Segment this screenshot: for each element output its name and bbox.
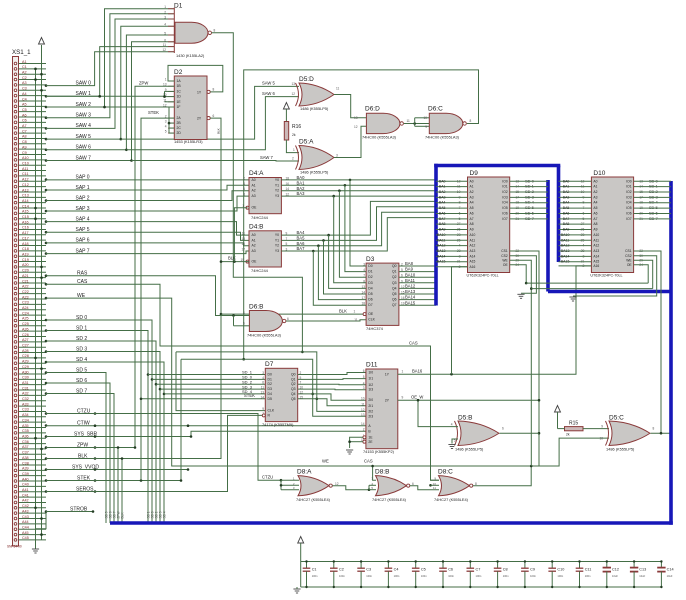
svg-text:C39: C39 xyxy=(22,472,29,476)
wire D5:B input pin 4 from OE_W line xyxy=(418,400,458,426)
svg-text:A40: A40 xyxy=(22,477,29,481)
svg-text:IO2: IO2 xyxy=(626,190,631,194)
svg-text:A25: A25 xyxy=(22,317,29,321)
svg-text:8: 8 xyxy=(653,427,655,431)
svg-text:BA4: BA4 xyxy=(563,201,570,205)
svg-text:A24: A24 xyxy=(22,306,29,310)
svg-text:A2: A2 xyxy=(22,71,27,75)
svg-text:2B: 2B xyxy=(177,121,182,125)
svg-text:CS1: CS1 xyxy=(625,249,632,253)
svg-text:A29: A29 xyxy=(22,360,29,364)
svg-text:14: 14 xyxy=(260,395,264,399)
svg-text:1A: 1A xyxy=(177,79,182,83)
svg-text:11: 11 xyxy=(361,402,365,406)
wire SAV1 to D2 1C-1F bar xyxy=(46,91,165,96)
svg-text:5: 5 xyxy=(165,130,167,134)
svg-text:2I3: 2I3 xyxy=(368,414,373,418)
svg-text:BA14: BA14 xyxy=(437,254,446,258)
svg-text:2: 2 xyxy=(243,176,245,180)
svg-text:C6: C6 xyxy=(22,119,27,123)
resistor R16 xyxy=(284,122,301,141)
svg-text:Q0: Q0 xyxy=(392,264,397,268)
svg-text:2I0: 2I0 xyxy=(368,398,373,402)
NOR gate D8:C xyxy=(433,469,477,502)
svg-text:2k: 2k xyxy=(566,433,570,437)
svg-text:SAW 7: SAW 7 xyxy=(260,155,274,160)
svg-text:BA6: BA6 xyxy=(439,211,446,215)
wire D8:C output up to WE line xyxy=(473,466,531,486)
svg-text:C17: C17 xyxy=(22,236,29,240)
svg-text:A1: A1 xyxy=(252,183,256,187)
svg-text:Q5: Q5 xyxy=(392,292,397,296)
svg-text:D7: D7 xyxy=(265,361,274,368)
wires BA0-BA7 staircase to D3 inputs xyxy=(312,179,366,306)
svg-text:6: 6 xyxy=(164,38,166,42)
wire D2 1Y loop to pin 1 xyxy=(168,65,223,92)
capacitor C3 xyxy=(357,560,372,588)
svg-text:CS2: CS2 xyxy=(625,254,632,258)
svg-text:BA4: BA4 xyxy=(439,201,446,205)
svg-text:8: 8 xyxy=(475,482,477,486)
svg-text:BA3: BA3 xyxy=(297,191,306,196)
svg-text:D3: D3 xyxy=(368,281,372,285)
wire SAV6 to D5:D pin 12 xyxy=(126,97,299,150)
svg-text:3: 3 xyxy=(262,371,264,375)
wire WE tie line D9-D10 xyxy=(531,288,652,290)
svg-text:D5:C: D5:C xyxy=(609,415,624,422)
svg-text:BA9: BA9 xyxy=(405,267,414,272)
svg-text:A7: A7 xyxy=(593,217,597,221)
svg-text:D5:A: D5:A xyxy=(299,139,314,146)
svg-text:UT62K324PC-70LL: UT62K324PC-70LL xyxy=(467,274,499,278)
svg-text:BA8: BA8 xyxy=(405,261,414,266)
svg-text:C1: C1 xyxy=(22,65,27,69)
svg-text:C37: C37 xyxy=(22,451,29,455)
svg-text:A1: A1 xyxy=(470,185,474,189)
svg-text:A5: A5 xyxy=(470,206,474,210)
svg-text:C12: C12 xyxy=(22,183,29,187)
svg-text:D1: D1 xyxy=(174,3,183,10)
svg-text:BA9: BA9 xyxy=(439,228,446,232)
svg-text:100n: 100n xyxy=(366,574,372,578)
svg-text:IO2: IO2 xyxy=(502,190,507,194)
svg-text:2: 2 xyxy=(363,428,365,432)
svg-text:11: 11 xyxy=(242,232,246,236)
svg-text:IO6: IO6 xyxy=(502,211,507,215)
svg-text:BA13: BA13 xyxy=(437,249,446,253)
resistor R15 xyxy=(565,421,584,437)
svg-text:BA4: BA4 xyxy=(297,230,306,235)
svg-text:C14: C14 xyxy=(667,568,674,572)
svg-text:A3: A3 xyxy=(593,195,597,199)
svg-text:11: 11 xyxy=(354,318,358,322)
wire SAP0 to D4:A xyxy=(46,179,249,181)
svg-text:A10: A10 xyxy=(22,156,29,160)
svg-text:D11: D11 xyxy=(366,362,378,369)
XOR gate D5:C xyxy=(606,415,655,452)
svg-text:8: 8 xyxy=(214,29,216,33)
svg-text:2Y: 2Y xyxy=(197,117,202,121)
svg-text:A4: A4 xyxy=(593,201,597,205)
capacitor C10 xyxy=(548,560,564,588)
svg-text:A0: A0 xyxy=(252,233,256,237)
svg-text:R15: R15 xyxy=(569,421,578,427)
svg-text:13: 13 xyxy=(241,237,245,241)
capacitor C14 xyxy=(657,560,673,588)
bus top horizontal xyxy=(434,164,560,168)
svg-text:Y1: Y1 xyxy=(275,238,279,242)
XOR gate D5:A xyxy=(296,139,339,175)
octal register D3 xyxy=(361,256,404,331)
wire SAP7 to D4:B xyxy=(46,251,249,254)
svg-text:3: 3 xyxy=(363,386,365,390)
svg-text:BLK: BLK xyxy=(217,128,221,134)
svg-text:3: 3 xyxy=(165,120,167,124)
octal buffer D4:B xyxy=(240,223,287,273)
wire D1 output to D11 2I2 and D7 CLK xyxy=(212,33,303,352)
svg-text:Q0: Q0 xyxy=(291,373,296,377)
svg-text:C21: C21 xyxy=(22,279,29,283)
svg-text:6: 6 xyxy=(502,427,504,431)
svg-text:BLK: BLK xyxy=(228,256,236,261)
svg-text:D2: D2 xyxy=(268,382,272,386)
svg-text:2Y: 2Y xyxy=(385,399,390,403)
wire SAP1 to D4:A xyxy=(46,185,249,190)
svg-text:Q7: Q7 xyxy=(392,303,397,307)
wire D9 A16 pin xyxy=(436,266,468,268)
svg-text:D8:C: D8:C xyxy=(438,469,453,476)
svg-text:IO0: IO0 xyxy=(626,179,631,183)
wire SAP4 to D4:B xyxy=(46,222,249,236)
svg-text:1486 (K555LP5): 1486 (K555LP5) xyxy=(300,106,329,111)
svg-text:A7: A7 xyxy=(470,217,474,221)
svg-text:D3: D3 xyxy=(366,256,375,263)
svg-text:2k: 2k xyxy=(292,133,296,137)
svg-text:D8:A: D8:A xyxy=(297,469,312,476)
svg-text:BA11: BA11 xyxy=(561,238,569,242)
svg-text:SD_4: SD_4 xyxy=(242,389,253,394)
svg-text:A32: A32 xyxy=(22,392,29,396)
svg-text:BA3: BA3 xyxy=(439,195,446,199)
svg-text:OE: OE xyxy=(503,263,509,267)
svg-text:Q3: Q3 xyxy=(291,387,296,391)
svg-text:D6: D6 xyxy=(368,298,372,302)
svg-text:Y3: Y3 xyxy=(275,249,279,253)
svg-text:IO5: IO5 xyxy=(626,206,631,210)
svg-text:IO4: IO4 xyxy=(502,201,507,205)
svg-text:14: 14 xyxy=(361,422,365,426)
dual 4:1 mux D11 xyxy=(361,362,398,454)
svg-text:12: 12 xyxy=(292,92,296,96)
svg-text:ZPW: ZPW xyxy=(139,81,148,86)
svg-text:A27: A27 xyxy=(22,338,29,342)
svg-text:10: 10 xyxy=(433,482,437,486)
svg-text:10uF: 10uF xyxy=(667,574,673,578)
svg-text:BA1: BA1 xyxy=(297,180,306,185)
svg-text:100n: 100n xyxy=(448,574,454,578)
svg-text:A9: A9 xyxy=(470,228,474,232)
svg-text:A14: A14 xyxy=(593,254,599,258)
wire STEK branch to D7 pin 14 xyxy=(141,398,265,400)
svg-text:1E: 1E xyxy=(177,100,182,104)
net labels D4:B outputs xyxy=(297,230,306,251)
svg-text:A8: A8 xyxy=(593,222,597,226)
svg-text:100n: 100n xyxy=(421,574,427,578)
wire SAV7 to D5:A pin 2 xyxy=(132,160,300,163)
svg-text:12: 12 xyxy=(361,408,365,412)
XOR gate D5:B xyxy=(455,415,505,452)
svg-text:C34: C34 xyxy=(22,418,29,422)
svg-text:C18: C18 xyxy=(22,247,29,251)
svg-text:D2: D2 xyxy=(368,275,372,279)
wire WE net long horizontal xyxy=(46,298,609,466)
capacitor C7 xyxy=(467,560,482,588)
svg-text:D6:D: D6:D xyxy=(365,106,380,113)
svg-text:CAS: CAS xyxy=(364,458,373,463)
svg-text:10: 10 xyxy=(423,116,427,120)
svg-text:C2: C2 xyxy=(339,568,344,572)
svg-text:12: 12 xyxy=(354,125,358,129)
svg-text:D5:B: D5:B xyxy=(458,415,472,422)
svg-text:1F: 1F xyxy=(177,105,181,109)
svg-text:A20: A20 xyxy=(22,263,29,267)
svg-text:11: 11 xyxy=(261,386,265,390)
svg-text:1: 1 xyxy=(165,78,167,82)
svg-text:BA15: BA15 xyxy=(437,260,446,264)
svg-text:BA13: BA13 xyxy=(405,289,416,294)
svg-text:6: 6 xyxy=(213,114,215,118)
svg-text:D4:B: D4:B xyxy=(249,223,263,230)
svg-text:IO3: IO3 xyxy=(502,195,507,199)
svg-text:BA8: BA8 xyxy=(439,222,446,226)
svg-text:4: 4 xyxy=(164,23,166,27)
svg-text:Q4: Q4 xyxy=(291,392,296,396)
svg-text:A10: A10 xyxy=(470,233,476,237)
svg-text:OE: OE xyxy=(252,260,258,264)
svg-text:IO4: IO4 xyxy=(626,201,631,205)
svg-text:A11: A11 xyxy=(593,238,599,242)
wires D7 outputs to D11 inputs xyxy=(298,373,366,406)
svg-text:74153 (K555KP2): 74153 (K555KP2) xyxy=(363,449,395,454)
svg-text:BA7: BA7 xyxy=(563,217,570,221)
wire D5:C output to bus xyxy=(651,432,672,434)
svg-text:D6:B: D6:B xyxy=(249,304,263,311)
svg-text:6: 6 xyxy=(243,187,245,191)
svg-text:A22: A22 xyxy=(22,285,29,289)
wire D11 1Y BA16 to D9 D10 A16 pins xyxy=(398,266,592,374)
svg-text:BA2: BA2 xyxy=(563,190,570,194)
svg-text:100n: 100n xyxy=(585,574,591,578)
svg-text:R16: R16 xyxy=(292,124,301,130)
svg-text:2C: 2C xyxy=(177,126,182,130)
svg-text:A17: A17 xyxy=(22,231,29,235)
svg-text:BLK: BLK xyxy=(339,309,347,314)
wire ZPW branch drop to blue bus xyxy=(117,448,119,524)
svg-text:A39: A39 xyxy=(22,467,29,471)
wires D11 enable pins to ground xyxy=(350,437,363,448)
svg-text:1453 (K155LR3): 1453 (K155LR3) xyxy=(174,139,203,144)
svg-text:Q1: Q1 xyxy=(392,270,397,274)
svg-text:Q6: Q6 xyxy=(392,298,397,302)
svg-text:A2: A2 xyxy=(252,189,256,193)
svg-text:C12: C12 xyxy=(612,568,619,572)
svg-text:100n: 100n xyxy=(339,574,345,578)
svg-text:C25: C25 xyxy=(22,322,29,326)
svg-text:Y1: Y1 xyxy=(275,183,279,187)
svg-text:9: 9 xyxy=(262,407,264,411)
svg-text:74HC244: 74HC244 xyxy=(251,268,269,273)
capacitor C12 xyxy=(603,560,619,588)
NAND gate D6:C xyxy=(423,106,471,140)
net labels at connector signals xyxy=(70,80,99,512)
wire SAV2 to D2 2B-2D bar xyxy=(46,107,169,133)
wire D5:B output xyxy=(500,432,540,434)
svg-text:C35: C35 xyxy=(22,429,29,433)
svg-text:C13: C13 xyxy=(22,194,29,198)
svg-text:C29: C29 xyxy=(22,365,29,369)
wires D10 address pins from bus xyxy=(559,179,592,263)
svg-text:4: 4 xyxy=(243,311,245,315)
svg-text:A8: A8 xyxy=(470,222,474,226)
svg-text:WE: WE xyxy=(502,258,508,262)
svg-text:5: 5 xyxy=(164,32,166,36)
svg-text:D1: D1 xyxy=(268,377,272,381)
wire BLK branch drop to blue bus xyxy=(121,459,123,524)
svg-text:D7: D7 xyxy=(368,303,372,307)
svg-text:A1: A1 xyxy=(593,185,597,189)
svg-text:A35: A35 xyxy=(22,424,29,428)
junction dots at connector signal taps xyxy=(45,84,48,513)
svg-text:IO1: IO1 xyxy=(626,185,631,189)
svg-text:A10: A10 xyxy=(593,233,599,237)
svg-text:D0: D0 xyxy=(368,264,372,268)
wire CAS net to D8:C xyxy=(46,284,439,480)
svg-text:A3: A3 xyxy=(470,195,474,199)
svg-text:74HC00 (K555LA3): 74HC00 (K555LA3) xyxy=(362,134,397,139)
wire D5:A output to D6:D pin 12 xyxy=(334,126,366,157)
wire SAV5 to D5:D pin 13 xyxy=(121,86,299,139)
svg-text:A18: A18 xyxy=(22,242,29,246)
svg-text:C16: C16 xyxy=(22,226,29,230)
svg-text:BA0: BA0 xyxy=(563,179,570,183)
svg-text:XS1_1: XS1_1 xyxy=(12,49,31,56)
svg-text:BA2: BA2 xyxy=(439,190,446,194)
svg-text:12: 12 xyxy=(335,482,339,486)
svg-text:1I3: 1I3 xyxy=(368,388,373,392)
wires D10 control pins xyxy=(634,251,661,433)
wire D8:B pin 3 from WE line xyxy=(373,466,376,480)
svg-text:A0: A0 xyxy=(252,178,256,182)
power arrow at connector top xyxy=(39,38,45,45)
svg-text:Q2: Q2 xyxy=(392,275,397,279)
svg-text:6: 6 xyxy=(363,369,365,373)
svg-text:1I2: 1I2 xyxy=(368,383,373,387)
svg-text:STEK: STEK xyxy=(148,110,159,115)
svg-text:1C: 1C xyxy=(177,89,182,93)
svg-text:100n: 100n xyxy=(312,574,318,578)
svg-text:13: 13 xyxy=(354,116,358,120)
svg-text:13: 13 xyxy=(260,390,264,394)
svg-text:C45: C45 xyxy=(22,536,29,540)
svg-text:74HC00 (K555LA3): 74HC00 (K555LA3) xyxy=(247,333,282,338)
svg-text:9: 9 xyxy=(402,396,404,400)
octal buffer D4:A xyxy=(242,170,289,220)
svg-text:D1: D1 xyxy=(368,270,372,274)
svg-text:A14: A14 xyxy=(470,254,476,258)
svg-text:1486 (K555LP5): 1486 (K555LP5) xyxy=(300,170,329,175)
svg-text:C40: C40 xyxy=(22,483,29,487)
svg-text:13: 13 xyxy=(292,82,296,86)
svg-text:C3: C3 xyxy=(366,568,371,572)
svg-text:Q3: Q3 xyxy=(392,281,397,285)
wire SAP5 to D4:B xyxy=(46,232,249,240)
capacitor C6 xyxy=(439,560,454,588)
svg-text:D4:A: D4:A xyxy=(249,170,264,177)
svg-text:SD 1: SD 1 xyxy=(146,511,150,518)
svg-text:9: 9 xyxy=(425,125,427,129)
capacitor C4 xyxy=(385,560,400,588)
bus SD vertical right of D10 xyxy=(669,181,673,525)
svg-text:C5: C5 xyxy=(421,568,426,572)
capacitor rail top xyxy=(301,561,662,563)
svg-text:OE: OE xyxy=(368,312,374,316)
svg-text:A43: A43 xyxy=(22,509,29,513)
svg-text:WE: WE xyxy=(626,258,632,262)
svg-text:C19: C19 xyxy=(22,258,29,262)
SRAM D10 xyxy=(581,170,659,278)
svg-text:A34: A34 xyxy=(22,413,29,417)
svg-text:C26: C26 xyxy=(22,333,29,337)
svg-text:OE: OE xyxy=(627,263,633,267)
svg-text:C42: C42 xyxy=(22,504,29,508)
svg-text:A4: A4 xyxy=(22,92,27,96)
svg-text:A36: A36 xyxy=(22,435,29,439)
capacitor C13 xyxy=(630,560,646,588)
svg-text:Q4: Q4 xyxy=(392,286,397,290)
svg-text:A12: A12 xyxy=(593,244,599,248)
svg-text:1Y: 1Y xyxy=(197,90,202,94)
svg-text:2E: 2E xyxy=(368,440,373,444)
wire OE_W vertical down xyxy=(538,400,540,466)
wire OE tie line D9-D10 xyxy=(526,282,648,284)
svg-text:1: 1 xyxy=(402,370,404,374)
svg-text:10: 10 xyxy=(599,437,603,441)
wire SEROS to D7 reset pin xyxy=(46,415,264,491)
svg-text:BA1: BA1 xyxy=(439,185,446,189)
svg-text:C27: C27 xyxy=(22,344,29,348)
svg-text:C8: C8 xyxy=(22,140,27,144)
NOR gate D8:B xyxy=(371,469,414,502)
svg-text:BA6: BA6 xyxy=(297,241,306,246)
svg-text:8: 8 xyxy=(243,193,245,197)
svg-text:BA7: BA7 xyxy=(439,217,446,221)
wire SYS_SBR to D11 pin B xyxy=(46,431,366,436)
svg-text:A9: A9 xyxy=(22,145,27,149)
svg-text:4: 4 xyxy=(243,182,245,186)
svg-text:1Y: 1Y xyxy=(385,373,390,377)
svg-text:C33: C33 xyxy=(22,408,29,412)
svg-text:C2: C2 xyxy=(22,76,27,80)
svg-text:10uF: 10uF xyxy=(639,574,645,578)
svg-text:1486 (K555LP5): 1486 (K555LP5) xyxy=(606,447,635,452)
wire CTZU to D8:A xyxy=(46,414,281,481)
svg-text:BA5: BA5 xyxy=(297,236,306,241)
wire D6:B output to D3 CLK xyxy=(286,320,366,321)
svg-text:A4: A4 xyxy=(470,201,474,205)
junction dots at x95 segment joins xyxy=(94,412,97,493)
connector XS1_1 xyxy=(7,49,46,549)
wire STROB row tie down to ground bus xyxy=(36,512,47,529)
